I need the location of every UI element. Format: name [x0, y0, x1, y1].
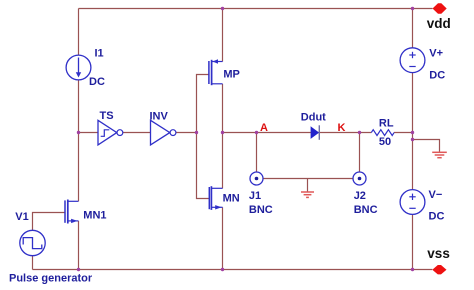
svg-text:INV: INV — [150, 111, 169, 123]
junction at bottom rail / MN1 source — [77, 268, 80, 271]
transistor MP (PMOS) — [209, 59, 223, 85]
svg-text:MN1: MN1 — [83, 209, 106, 221]
junction at node K / J2 riser — [358, 131, 361, 134]
transistor MN1 (NMOS) — [65, 200, 79, 224]
wire J1 to J2 link — [263, 178, 353, 180]
wire MN1 source to bottom rail — [78, 221, 80, 270]
wire RL right to right rail — [394, 132, 413, 134]
wire gate line MP gate to MN gate — [197, 75, 210, 199]
svg-text:DC: DC — [429, 69, 445, 81]
wire left rail vertical (top corner down to I1 top) — [78, 9, 80, 56]
svg-text:MN: MN — [223, 193, 240, 205]
svg-text:Pulse generator: Pulse generator — [9, 273, 93, 285]
svg-text:I1: I1 — [95, 48, 104, 60]
svg-text:DC: DC — [429, 211, 445, 223]
ground middle (between J1 and J2) — [301, 192, 314, 197]
wire right rail top (vdd tap to V+ top) — [412, 9, 414, 48]
junction at gate line — [195, 131, 198, 134]
diode Ddut — [311, 125, 319, 140]
wire output node to RL left — [223, 132, 372, 134]
svg-text:J1: J1 — [249, 190, 261, 202]
wire right rail V+ bottom to V- top — [412, 73, 414, 190]
junction at right rail / RL — [411, 131, 414, 134]
resistor RL — [371, 130, 394, 136]
connector J2 (BNC) — [353, 172, 366, 185]
svg-text:BNC: BNC — [354, 204, 378, 216]
wire J2 riser — [359, 133, 361, 173]
junction at TS input — [77, 131, 80, 134]
wire ground branch right — [413, 140, 440, 152]
wire V1 bottom to bottom rail — [32, 256, 34, 270]
transistor MN (NMOS) — [209, 186, 222, 210]
junction at top rail / right rail — [411, 7, 414, 10]
svg-text:V1: V1 — [15, 211, 28, 223]
svg-text:RL: RL — [379, 117, 394, 129]
wire TS input branch — [79, 132, 99, 134]
svg-text:MP: MP — [223, 69, 240, 81]
voltage source V+ — [400, 48, 425, 73]
wire left rail I1 bottom to MN1 drain corner — [78, 80, 80, 202]
wire MN source to bottom rail — [222, 207, 224, 269]
inverter INV — [151, 120, 176, 145]
wire ground stub middle — [307, 179, 309, 192]
svg-text:Ddut: Ddut — [301, 111, 326, 123]
svg-text:K: K — [338, 122, 346, 134]
wire INV output to gate line — [176, 132, 197, 134]
svg-text:TS: TS — [100, 110, 114, 122]
svg-text:BNC: BNC — [249, 204, 273, 216]
power pin vdd — [433, 3, 447, 13]
junction at bottom rail / MN source — [221, 268, 224, 271]
ground right (RL return) — [432, 152, 447, 157]
svg-text:V−: V− — [429, 189, 443, 201]
svg-text:vss: vss — [427, 246, 450, 261]
wire bottom rail vss — [33, 269, 433, 271]
connector J1 (BNC) — [250, 172, 263, 185]
power pin vss — [432, 265, 446, 274]
wire J1 riser — [256, 133, 258, 173]
wire top rail vdd — [79, 8, 433, 10]
wire V1 top to MN1 gate — [33, 213, 66, 231]
svg-text:DC: DC — [89, 76, 105, 88]
pulse source V1 — [20, 230, 45, 255]
junction at top rail / MP source — [221, 7, 224, 10]
wire MP source to top rail — [222, 9, 224, 62]
junction at bottom rail / right rail — [411, 268, 414, 271]
wire right rail V- bottom to bottom rail — [412, 214, 414, 269]
schmitt buffer TS — [98, 120, 123, 145]
wire TS output to INV input — [123, 132, 151, 134]
junction at right rail / ground branch — [411, 138, 414, 141]
svg-text:A: A — [260, 122, 268, 134]
svg-text:vdd: vdd — [427, 16, 451, 31]
voltage source V- — [400, 190, 425, 215]
svg-text:V+: V+ — [429, 48, 443, 60]
current source I1 — [66, 55, 91, 80]
junction at node A / J1 riser — [255, 131, 258, 134]
svg-text:J2: J2 — [354, 190, 366, 202]
junction at drain output node — [221, 131, 224, 134]
svg-text:50: 50 — [379, 136, 391, 148]
wire MP drain to MN drain — [222, 84, 224, 188]
